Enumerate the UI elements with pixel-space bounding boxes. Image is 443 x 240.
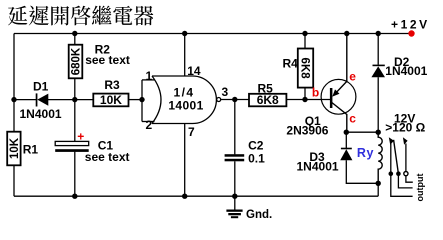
svg-text:14001: 14001 (168, 98, 203, 112)
svg-text:R4: R4 (283, 57, 299, 71)
svg-text:6K8: 6K8 (257, 93, 279, 107)
svg-text:C2: C2 (248, 139, 264, 153)
svg-text:2: 2 (146, 118, 153, 132)
svg-text:0.1: 0.1 (248, 152, 265, 166)
svg-text:1/4: 1/4 (174, 86, 195, 100)
svg-text:e: e (349, 69, 356, 83)
svg-text:10K: 10K (9, 137, 21, 159)
svg-text:3: 3 (222, 85, 229, 99)
svg-text:see text: see text (85, 150, 130, 164)
svg-text:6K8: 6K8 (298, 58, 310, 80)
svg-text:14: 14 (187, 64, 201, 78)
svg-text:R1: R1 (23, 143, 39, 157)
svg-text:output: output (415, 174, 425, 202)
svg-text:1N4001: 1N4001 (385, 64, 427, 78)
svg-text:b: b (312, 86, 319, 100)
svg-text:c: c (349, 111, 356, 125)
svg-text:7: 7 (188, 125, 195, 139)
svg-text:R3: R3 (104, 78, 120, 92)
svg-text:2N3906: 2N3906 (286, 123, 328, 137)
svg-text:Gnd.: Gnd. (246, 209, 272, 221)
svg-text:see text: see text (85, 53, 130, 67)
svg-text:680K: 680K (71, 47, 83, 75)
svg-text:1N4001: 1N4001 (297, 160, 339, 174)
svg-text:D1: D1 (33, 79, 49, 93)
svg-text:1N4001: 1N4001 (20, 107, 62, 121)
svg-text:>120 Ω: >120 Ω (385, 121, 425, 135)
svg-text:10K: 10K (100, 93, 122, 107)
svg-text:+: + (77, 129, 84, 143)
svg-text:+12V: +12V (391, 18, 430, 32)
svg-text:Ry: Ry (357, 146, 374, 160)
svg-text:1: 1 (146, 69, 153, 83)
